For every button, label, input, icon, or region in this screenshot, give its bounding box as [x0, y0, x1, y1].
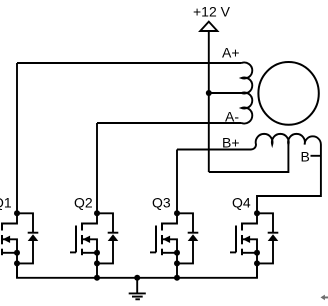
- cursor arrow: [321, 295, 328, 301]
- wire B- down and to Q4: [257, 145, 321, 214]
- power symbol arrow: [200, 22, 217, 31]
- svg-text:Q1: Q1: [0, 195, 12, 211]
- wire A+ vertical to Q1: [16, 63, 18, 213]
- wire +12V vertical: [208, 31, 210, 172]
- wire A center tap: [209, 92, 242, 94]
- wire B- label dash: [311, 155, 321, 157]
- diode D4: [257, 213, 278, 263]
- diode D3: [177, 213, 198, 263]
- diode D1: [17, 213, 38, 263]
- svg-text:+12 V: +12 V: [193, 4, 231, 20]
- wire B+ horizontal: [177, 149, 251, 151]
- wire A- horizontal: [97, 122, 242, 124]
- transistor Q2: [70, 210, 100, 277]
- transistor Q3: [150, 210, 180, 277]
- ground: [129, 278, 146, 300]
- transistor Q4: [230, 210, 260, 277]
- node rail Q3: [174, 275, 180, 281]
- wire A+ horizontal: [17, 62, 242, 64]
- wire B center tap: [209, 145, 289, 173]
- transistor Q1: [0, 210, 20, 277]
- wire ground rail: [17, 263, 257, 277]
- svg-text:B+: B+: [222, 135, 240, 151]
- node rail Q2: [94, 275, 100, 281]
- svg-text:B: B: [301, 148, 310, 164]
- diode D2: [97, 213, 118, 263]
- inductor A winding: [242, 62, 253, 123]
- svg-text:A+: A+: [222, 44, 240, 60]
- svg-text:Q4: Q4: [232, 195, 251, 211]
- wire B+ vertical to Q3: [176, 150, 178, 214]
- node rail ground: [134, 275, 140, 281]
- motor M1: [258, 62, 318, 125]
- wire A- vertical to Q2: [96, 123, 98, 213]
- svg-text:Q3: Q3: [152, 195, 171, 211]
- svg-text:Q2: Q2: [74, 195, 93, 211]
- svg-text:A-: A-: [225, 109, 239, 125]
- node A center tap: [206, 90, 212, 96]
- inductor B winding: [251, 134, 321, 150]
